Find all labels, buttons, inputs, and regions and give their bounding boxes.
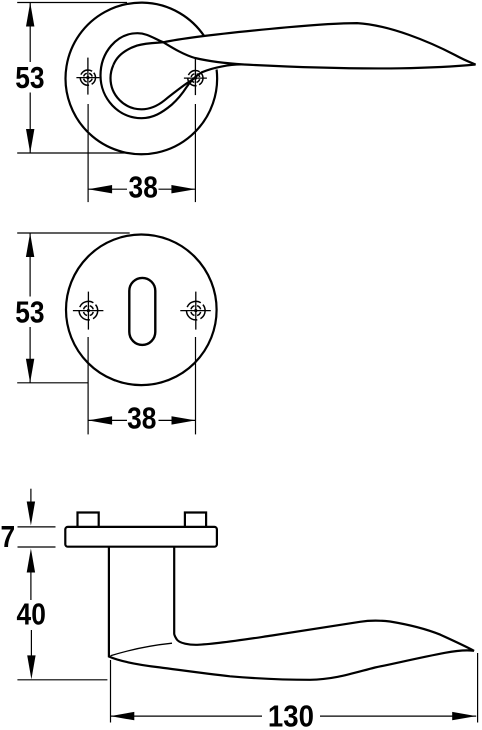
dimension 38 (top view) dimension line	[88, 188, 127, 190]
svg-text:53: 53	[15, 296, 44, 330]
arrow right	[452, 712, 476, 720]
svg-text:130: 130	[268, 699, 314, 730]
dimension 53 (middle view) extension line bottom	[17, 382, 88, 384]
svg-text:38: 38	[127, 401, 156, 435]
screw position right	[184, 58, 207, 95]
arrow right	[172, 416, 196, 424]
svg-text:53: 53	[15, 61, 44, 95]
dimension 53 (middle view) dimension line	[29, 233, 31, 297]
dimension 130 dimension line	[110, 715, 262, 717]
arrow left	[88, 185, 112, 193]
handle side profile	[109, 547, 474, 680]
dimension 38 (middle view) extension line left	[87, 337, 89, 434]
dimension 40 extension line bottom	[17, 679, 107, 681]
svg-text:7: 7	[0, 520, 15, 554]
handle neck silhouette (boss + swoosh + crease teardrop)	[101, 33, 245, 118]
dimension 38 (top view) extension line left	[87, 104, 89, 202]
svg-text:40: 40	[17, 598, 46, 632]
dimension 53 (middle view) extension line top	[17, 232, 130, 234]
right tab	[185, 513, 206, 528]
dimension 40: arrow down (tip at blade bottom level)	[30, 630, 32, 658]
dimension 7: arrow above pointing down	[30, 489, 32, 505]
dimension 7 extension line top	[18, 526, 56, 528]
arrow left	[110, 712, 134, 720]
dimension 53 (top view) dimension line	[29, 3, 31, 63]
rose plate bar	[65, 527, 217, 547]
crease line on blade	[111, 643, 173, 656]
left tab	[78, 513, 99, 528]
arrow left	[88, 416, 112, 424]
dimension 38 (top view) extension line right	[194, 104, 196, 202]
dimension 53 (top view) extension line top	[17, 2, 127, 4]
screw position left (escutcheon)	[73, 292, 104, 330]
screw position right (escutcheon)	[180, 292, 211, 330]
arrow down	[26, 359, 34, 383]
lever blade outline	[113, 23, 475, 68]
dimension 53 (top view) extension line bottom	[17, 152, 127, 154]
arrow up	[26, 233, 34, 257]
screw position left	[76, 58, 99, 95]
svg-text:38: 38	[129, 171, 158, 205]
escutcheon circle	[66, 234, 217, 385]
arrow right	[171, 185, 195, 193]
dimension 7 extension line bottom	[18, 546, 56, 548]
keyhole slot	[129, 278, 155, 345]
dimension 38 (middle view) dimension line	[88, 419, 127, 421]
rose outer circle (gap where lever crosses)	[66, 3, 218, 155]
handle boss inner edge arc + inner swoosh	[111, 65, 192, 109]
arrow down	[26, 129, 34, 153]
dimension 40: arrow up (tip at bar bottom)	[27, 549, 35, 573]
dimension 130 extension line left	[110, 660, 112, 723]
dimension 130 extension line right	[477, 653, 479, 723]
arrow up	[26, 3, 34, 27]
dimension 38 (middle view) extension line right	[195, 337, 197, 434]
